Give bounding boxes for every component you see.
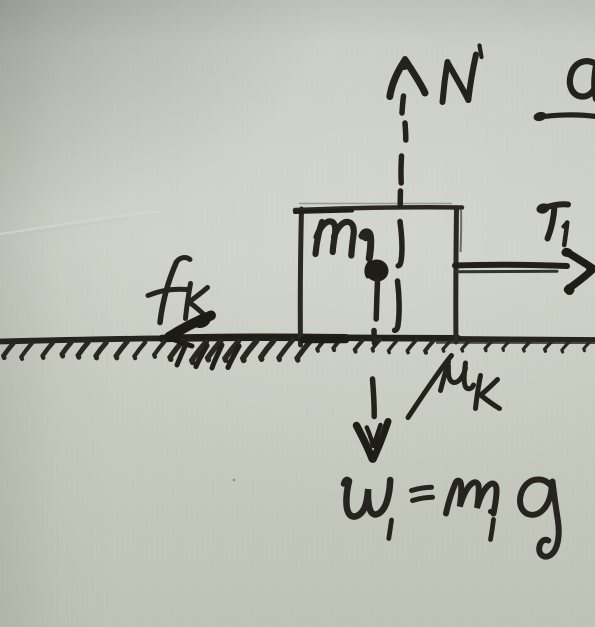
- block m1: left edge: [300, 209, 301, 345]
- friction arrowhead (points left on surface): [169, 316, 211, 338]
- ground hatching: [4, 339, 591, 362]
- block bottom thick: [302, 337, 346, 344]
- ink blob under m1 subscript: [363, 257, 390, 283]
- N dashed line (inside block): [395, 222, 402, 331]
- label N: [443, 46, 482, 103]
- label fk: [148, 258, 208, 323]
- label T1: [540, 204, 569, 245]
- long hatch strokes below friction arrow: [196, 346, 207, 367]
- block m1: right edge: [453, 208, 459, 342]
- formula w1 = m1 . g: [344, 479, 559, 556]
- label mu_k with pointer line: [408, 356, 500, 418]
- weight line dash below ground: [373, 379, 375, 417]
- ground line: [0, 338, 595, 342]
- paper speck: [233, 479, 236, 482]
- label a (top right, cut by edge): [570, 61, 595, 99]
- normal force N: up arrowhead: [390, 59, 425, 97]
- tension T1 arrowhead: [566, 252, 595, 290]
- label m1 inside block: [316, 221, 371, 258]
- ground line thin echo right: [436, 342, 595, 344]
- weight arrowhead (down): [357, 422, 389, 460]
- a underline: [537, 115, 595, 118]
- ground line thick overlay (fk shaft region): [162, 337, 346, 338]
- block m1: top edge: [295, 207, 462, 210]
- weight line dashes (inside block, left column): [374, 281, 378, 343]
- N dashed line (above block): [400, 96, 406, 206]
- paper crease top-left: [0, 212, 160, 234]
- tension T1 arrow shaft: [455, 265, 567, 266]
